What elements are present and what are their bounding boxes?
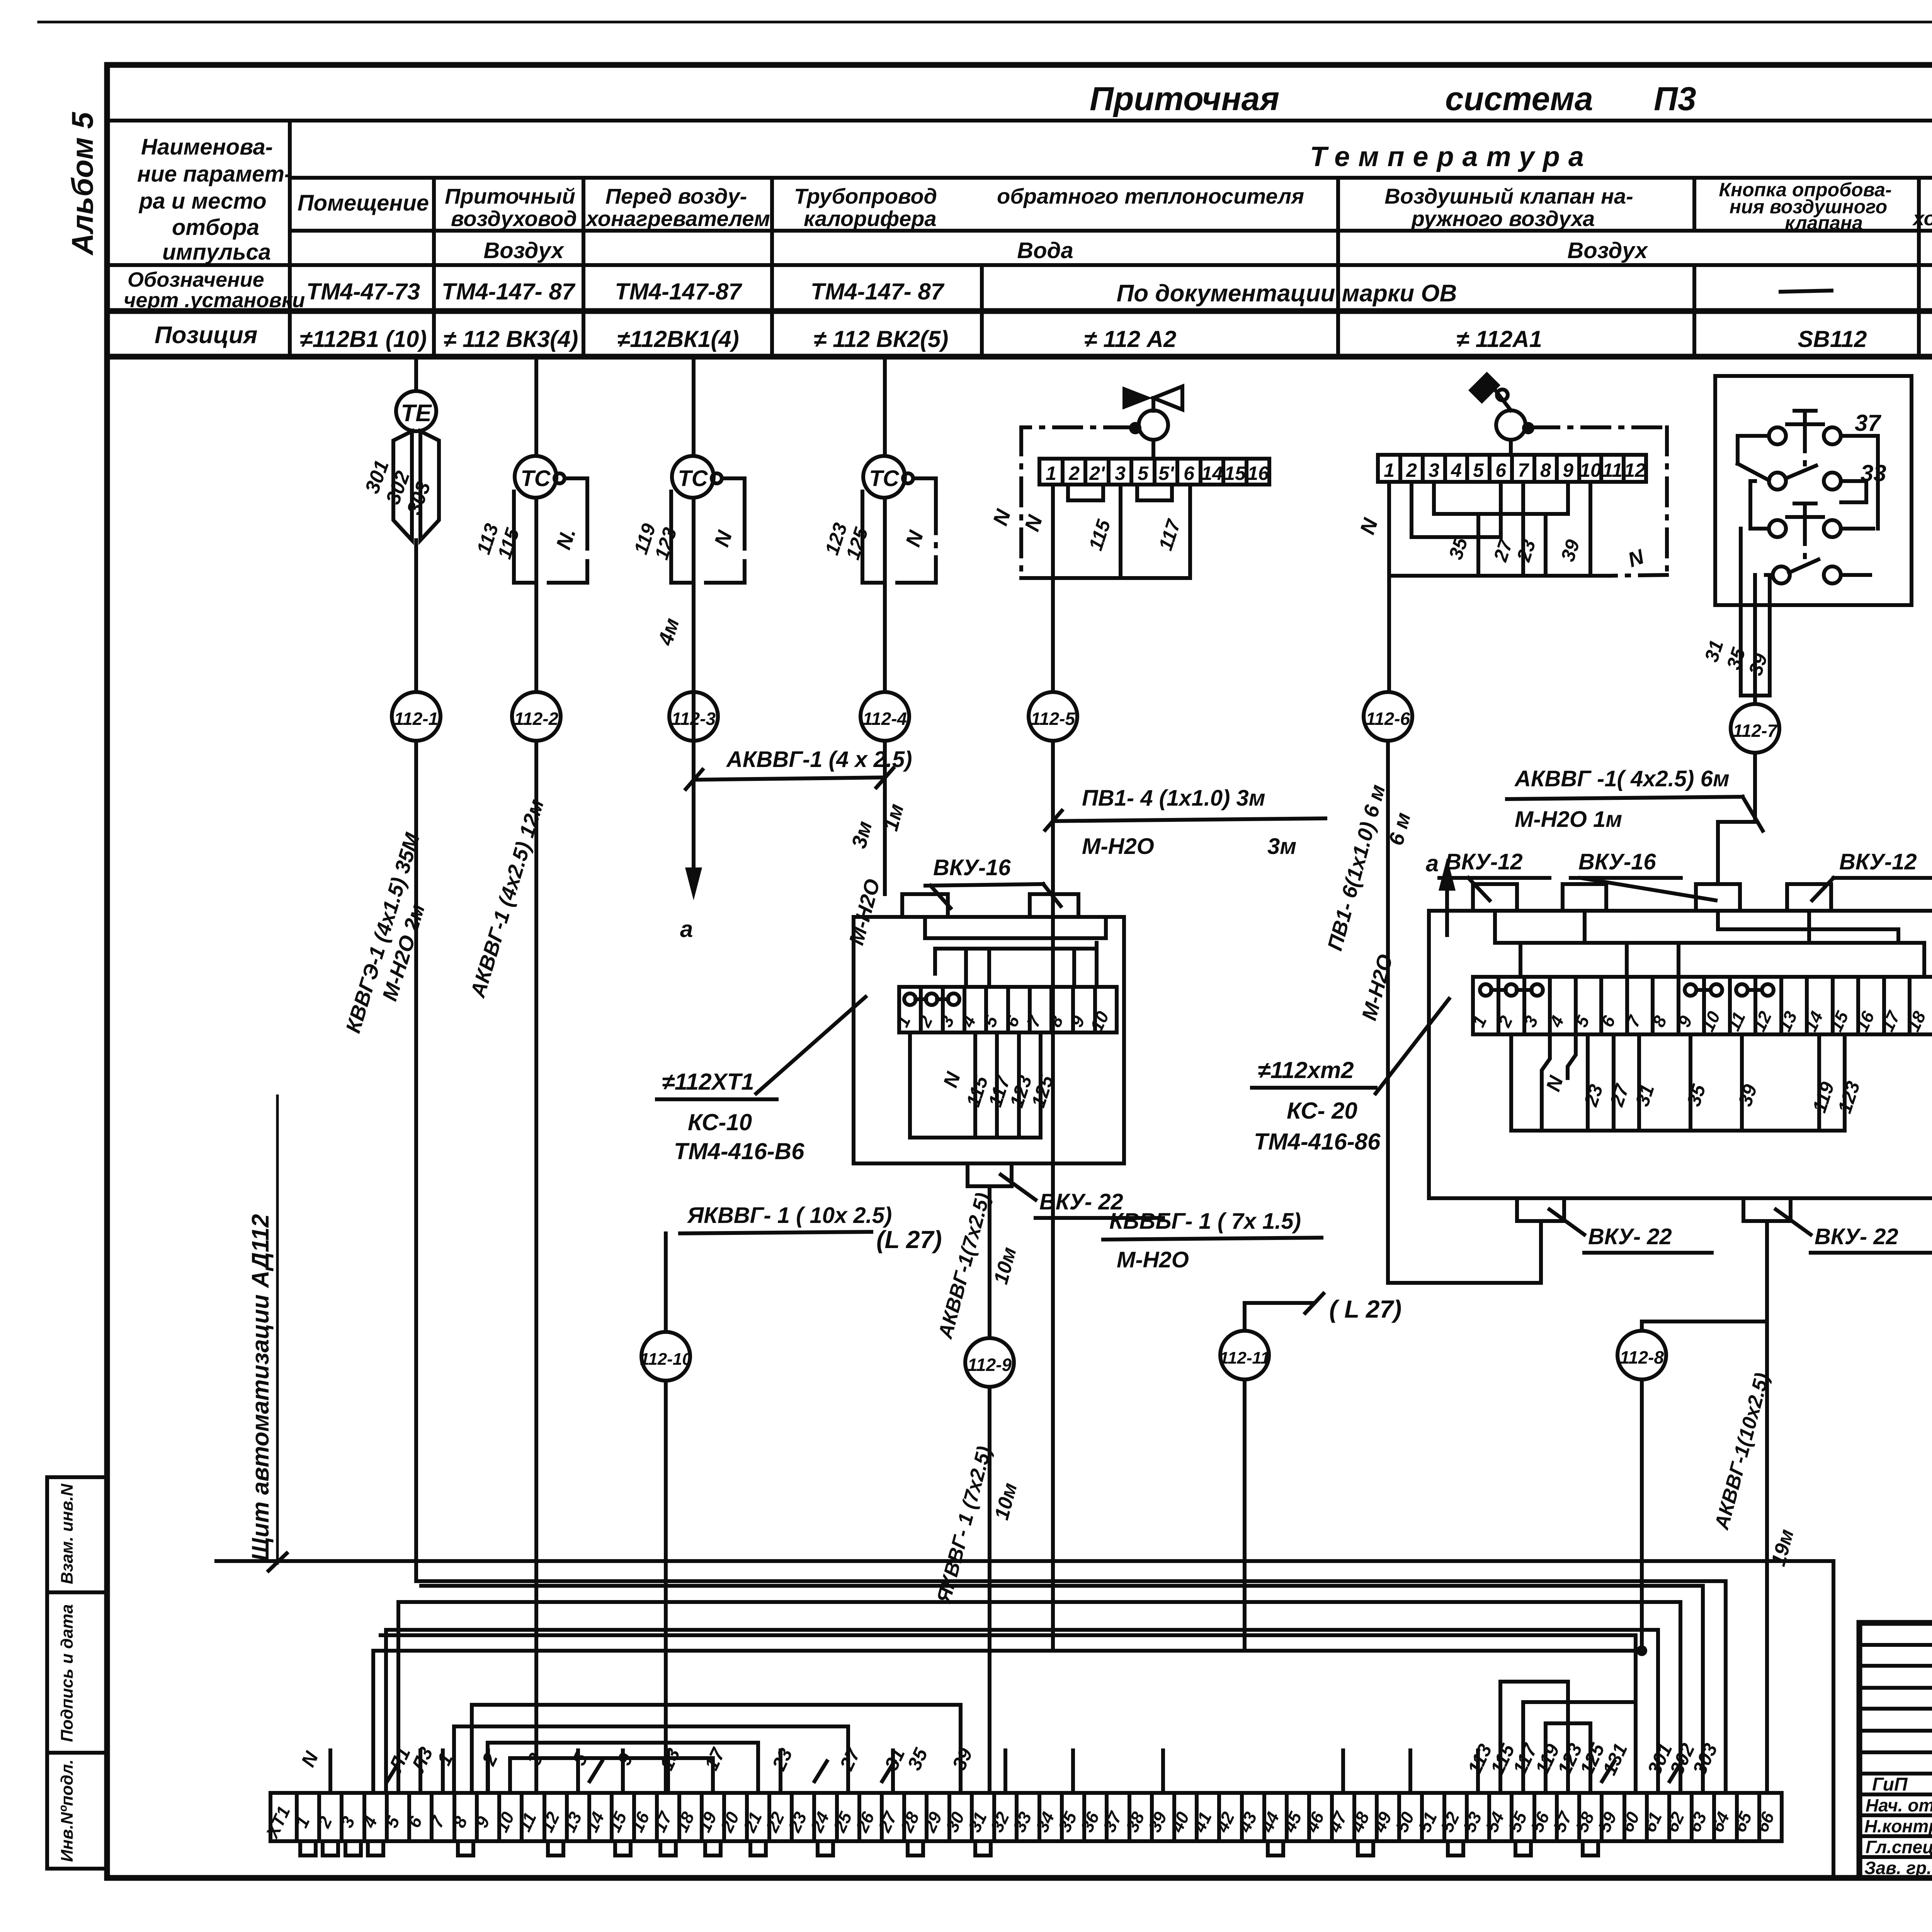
svg-text:ТМ4-47-73: ТМ4-47-73: [306, 279, 420, 304]
svg-text:≠112ХТ1: ≠112ХТ1: [662, 1069, 754, 1095]
svg-text:112-4: 112-4: [863, 709, 907, 729]
button internal wiring: [1738, 436, 1878, 605]
mid bracket B: [454, 1726, 848, 1793]
svg-text:КС- 20: КС- 20: [1287, 1098, 1357, 1124]
svg-text:По документации марки ОВ: По документации марки ОВ: [1117, 280, 1457, 307]
svg-text:( L 27): ( L 27): [1329, 1295, 1401, 1323]
wire col4 TC3 to 112-4: [883, 498, 887, 692]
box XT2 top tab 2: [1563, 884, 1606, 911]
valve symbol V1: [1122, 386, 1182, 411]
svg-text:Н.контр.: Н.контр.: [1864, 1816, 1932, 1836]
panel area boundary line: [216, 1561, 1833, 1877]
svg-text:ра и место: ра и место: [138, 189, 267, 214]
bus level 4: [384, 1630, 388, 1793]
svg-text:ВКУ-12: ВКУ-12: [1445, 849, 1523, 874]
svg-text:3м: 3м: [1267, 834, 1296, 859]
svg-text:Подпись и дата: Подпись и дата: [58, 1604, 77, 1742]
terminal header row V2: [1378, 455, 1646, 482]
wire col5 down: [1051, 741, 1055, 1238]
svg-text:12: 12: [1624, 459, 1646, 481]
wire 112-11 down to strip: [1243, 1379, 1247, 1650]
svg-text:Воздух: Воздух: [483, 238, 565, 263]
label 112ХТ1 КС-10: [657, 997, 866, 1164]
right bracket E: [1500, 1682, 1568, 1793]
junction circle 112-5: [1029, 692, 1077, 741]
TE pennant cable head: [361, 431, 439, 540]
svg-text:(L 27): (L 27): [876, 1226, 942, 1253]
svg-text:а: а: [680, 916, 693, 942]
svg-text:черт .установки: черт .установки: [124, 289, 305, 312]
box XT1 terminal row 1-10: [892, 987, 1117, 1034]
wire col1 TE to 112-1: [414, 540, 418, 692]
V1 terminal staple 5-5': [1137, 485, 1172, 500]
label cable ПВ1-4: [1045, 786, 1325, 859]
svg-text:8: 8: [1540, 459, 1551, 481]
svg-text:Взам. инв.N: Взам. инв.N: [58, 1483, 77, 1584]
svg-text:Помещение: Помещение: [298, 190, 429, 216]
short strip drops: [330, 1750, 1478, 1793]
svg-text:≠112ВК1(4): ≠112ВК1(4): [617, 326, 739, 352]
svg-text:Перед возду-: Перед возду-: [605, 184, 747, 208]
V2 jumper 2 to 6: [1412, 482, 1501, 537]
svg-text:Приточный: Приточный: [445, 184, 575, 208]
label cable 112-7: [1507, 766, 1763, 832]
svg-text:112-6: 112-6: [1366, 709, 1410, 729]
svg-text:Инв.Nºподл.: Инв.Nºподл.: [58, 1759, 77, 1862]
svg-text:КС-10: КС-10: [688, 1109, 752, 1135]
cable span dimension АКВВГ-1(4х2.5): [686, 747, 912, 789]
wire col1 down to fan: [414, 741, 418, 1581]
svg-text:ВКУ- 22: ВКУ- 22: [1815, 1224, 1898, 1249]
box XT2 top tab 3: [1696, 884, 1740, 911]
box XT1 screw jumper 1-2-3: [904, 993, 959, 1005]
svg-text:≠ 112 ВК3(4): ≠ 112 ВК3(4): [444, 326, 578, 352]
svg-text:Альбом 5: Альбом 5: [65, 112, 99, 256]
svg-text:112-5: 112-5: [1031, 709, 1076, 729]
svg-text:Гл.спец: Гл.спец: [1866, 1837, 1932, 1857]
label 112ХТ2 КС-20: [1252, 999, 1449, 1155]
label ВКУ-22 right with leader: [1776, 1209, 1932, 1253]
valve V2 wire to terminals: [1509, 440, 1513, 455]
box XT2 screw jumper 11-12: [1736, 984, 1774, 996]
wire 112-10 down to strip: [664, 1381, 668, 1793]
junction circle 112-3: [669, 692, 718, 741]
valve V1 wire to terminals: [1151, 440, 1155, 459]
box XT1 inner wiring: [925, 917, 1106, 987]
TC2 leads frame: [630, 478, 745, 583]
svg-text:ВКУ- 22: ВКУ- 22: [1588, 1224, 1672, 1249]
svg-text:обратного теплоносителя: обратного теплоносителя: [997, 184, 1304, 208]
svg-text:≠112хт2: ≠112хт2: [1258, 1057, 1354, 1083]
svg-text:ТМ4-147- 87: ТМ4-147- 87: [442, 279, 576, 304]
svg-text:2: 2: [1406, 459, 1417, 481]
wire col3 TC2 down: [692, 498, 696, 780]
svg-text:отбора: отбора: [172, 215, 259, 240]
wire col2 down to strip: [534, 741, 538, 1793]
junction box XT2 outline: [1429, 911, 1932, 1198]
valve V1 N dash-dot lead: [988, 422, 1141, 578]
svg-text:ВКУ-16: ВКУ-16: [933, 855, 1011, 880]
box XT2 top tab 1: [1473, 884, 1517, 911]
wire col6 to 112-6: [1387, 576, 1391, 692]
svg-text:хонагревателем: хонагревателем: [1912, 207, 1932, 230]
svg-text:Вода: Вода: [1017, 238, 1073, 263]
svg-text:Приточная: Приточная: [1090, 80, 1279, 117]
svg-text:АКВВГ -1( 4х2.5) 6м: АКВВГ -1( 4х2.5) 6м: [1514, 766, 1730, 791]
label ВКУ-16 second: [1571, 849, 1716, 900]
valve actuator circle V2: [1496, 410, 1526, 440]
box XT2 screw jumper 9-10: [1685, 984, 1722, 996]
svg-text:Обозначение: Обозначение: [128, 268, 264, 291]
svg-text:Позиция: Позиция: [155, 322, 257, 349]
V1 terminal staple 2-2': [1068, 485, 1103, 500]
svg-text:ВКУ-12: ВКУ-12: [1839, 849, 1917, 874]
wire 112-10 upper: [664, 1233, 668, 1332]
svg-text:ТС: ТС: [520, 466, 551, 491]
svg-text:система: система: [1445, 80, 1593, 117]
svg-text:SВ112: SВ112: [1798, 326, 1867, 352]
svg-text:хонагревателем: хонагревателем: [585, 206, 770, 231]
button contact pair lower break: [1766, 560, 1870, 583]
strip connector staples: [300, 1841, 1598, 1855]
title block stamp: [1859, 1623, 1932, 1878]
svg-text:5: 5: [1138, 463, 1149, 484]
svg-text:Температура: Температура: [1310, 141, 1592, 172]
svg-text:10: 10: [1580, 459, 1601, 481]
svg-text:37: 37: [1855, 410, 1881, 436]
svg-text:ТЕ: ТЕ: [401, 400, 432, 427]
wire col6 112-6 down: [1386, 741, 1390, 1283]
svg-text:5: 5: [1473, 459, 1484, 481]
button SB112 enclosure: [1715, 376, 1912, 605]
label ВКУ-22 with leader: [1001, 1175, 1163, 1218]
mid bracket A: [472, 1705, 961, 1793]
valve V2 N dash-dot lead: [1522, 422, 1667, 576]
svg-text:15: 15: [1224, 463, 1246, 484]
svg-text:ружного воздуха: ружного воздуха: [1411, 206, 1595, 231]
sensor TC1: [515, 456, 565, 498]
svg-text:КВВБГ- 1 ( 7х 1.5): КВВБГ- 1 ( 7х 1.5): [1109, 1209, 1301, 1234]
wire 112-9 cable from box XT1: [988, 1186, 992, 1338]
svg-text:ТМ4-147- 87: ТМ4-147- 87: [811, 279, 945, 304]
svg-text:калорифера: калорифера: [804, 206, 937, 231]
button contact pair lower: [1750, 503, 1873, 558]
svg-text:≠ 112А1: ≠ 112А1: [1456, 326, 1542, 352]
svg-text:112-9: 112-9: [968, 1355, 1012, 1375]
svg-text:4: 4: [1451, 459, 1462, 481]
wire col4 drop from table: [883, 357, 887, 456]
cable 19m drop to strip: [1710, 1321, 1798, 1793]
junction circle 112-6: [1364, 692, 1412, 741]
wire 112-7 down to box2: [1718, 753, 1755, 884]
svg-text:воздуховод: воздуховод: [451, 206, 577, 231]
svg-text:Трубопровод: Трубопровод: [794, 184, 937, 208]
svg-text:14: 14: [1201, 463, 1223, 484]
V2 lead wires to N bus: [1355, 482, 1608, 576]
right bracket G: [1546, 1723, 1590, 1793]
valve actuator circle V1: [1139, 410, 1168, 440]
svg-text:7: 7: [1518, 459, 1529, 481]
bus level 6 joins 112-8: [371, 1651, 375, 1793]
button contact pair upper: [1738, 411, 1878, 466]
junction circle 112-9: [965, 1338, 1014, 1387]
junction circle 112-2: [512, 692, 561, 741]
wire col5 down to fan: [1051, 1238, 1055, 1650]
svg-text:3: 3: [1115, 463, 1126, 484]
svg-text:ТМ4-416-86: ТМ4-416-86: [1254, 1129, 1381, 1155]
label КВВБГ-1 7х1.5: [1103, 1209, 1321, 1272]
svg-text:а: а: [1426, 850, 1439, 876]
svg-text:Воздух: Воздух: [1567, 238, 1648, 263]
wire col5 to 112-5: [1051, 578, 1055, 692]
button exit wires 31 35 39: [1701, 575, 1772, 704]
mid bracket D: [510, 1758, 713, 1793]
left margin stamp boxes: [47, 1477, 107, 1869]
sheet top edge: [39, 21, 1932, 24]
wire box XT2 right tab to 112-8: [1642, 1221, 1767, 1331]
TC1 leads frame: [473, 478, 587, 583]
terminal strip XT1 body: [262, 1793, 1782, 1842]
label ВКУ-22 left with leader: [1549, 1209, 1712, 1253]
svg-text:11: 11: [1602, 459, 1622, 481]
svg-text:Зав. гр.: Зав. гр.: [1864, 1858, 1932, 1878]
junction circle 112-1: [392, 692, 440, 741]
box XT2 lead wires below: [1511, 1034, 1864, 1131]
box XT1 top tab A: [902, 894, 948, 917]
V1 lead wires frame: [1020, 485, 1190, 578]
wire box XT2 left tab down to col6: [1388, 1221, 1541, 1283]
svg-text:ТС: ТС: [678, 466, 708, 491]
header table grid: [107, 121, 1932, 357]
svg-text:клапана: клапана: [1785, 212, 1863, 234]
V2 jumper 3 to 9: [1434, 482, 1568, 514]
svg-text:≠112В1 (10): ≠112В1 (10): [300, 326, 427, 352]
box XT2 top tab 4: [1787, 884, 1831, 911]
wire col2 TC1 to 112-2: [534, 498, 538, 692]
box XT1 bottom tab: [968, 1163, 1012, 1186]
damper symbol V2: [1468, 372, 1511, 410]
svg-text:ТМ4-147-87: ТМ4-147-87: [615, 279, 742, 304]
wire 112-9 down to strip: [988, 1387, 992, 1793]
svg-text:1: 1: [1384, 459, 1395, 481]
wire col2 drop from table: [534, 357, 538, 456]
junction circle 112-8: [1617, 1331, 1666, 1379]
junction circle 112-7: [1731, 704, 1779, 753]
svg-text:112-7: 112-7: [1733, 721, 1778, 741]
bus 301 302 303 to strip: [398, 1581, 1726, 1793]
svg-text:ТМ4-416-В6: ТМ4-416-В6: [674, 1138, 804, 1164]
box XT2 terminal row 1-20: [1468, 977, 1932, 1035]
row label Наименование параметра: [137, 134, 292, 265]
svg-text:ТС: ТС: [869, 466, 899, 491]
svg-text:ГиП: ГиП: [1872, 1774, 1908, 1795]
svg-text:112-3: 112-3: [672, 709, 716, 729]
mid bracket C: [488, 1743, 758, 1793]
label ВКУ-16 with leaders: [925, 855, 1061, 908]
svg-text:112-10: 112-10: [640, 1350, 692, 1369]
junction circle 112-4: [861, 692, 909, 741]
svg-text:9: 9: [1563, 459, 1573, 481]
svg-text:Наименова-: Наименова-: [141, 134, 273, 160]
TC3 leads frame: [821, 478, 936, 583]
sensor TE: [396, 391, 436, 431]
wire col1 drop from table: [414, 357, 418, 391]
box XT1 lead wires below: [910, 1032, 1058, 1138]
svg-text:ВКУ-16: ВКУ-16: [1578, 849, 1656, 874]
svg-text:112-11: 112-11: [1219, 1349, 1270, 1367]
svg-text:112-1: 112-1: [394, 709, 438, 729]
box XT2 bottom tab left: [1517, 1198, 1564, 1221]
svg-text:П3: П3: [1654, 80, 1696, 117]
label ВКУ-12 first: [1439, 849, 1549, 900]
svg-text:Нач. отд.: Нач. отд.: [1866, 1795, 1932, 1815]
svg-text:М-Н2О 1м: М-Н2О 1м: [1515, 807, 1622, 832]
drop slashes: [387, 1761, 1682, 1781]
svg-text:≠ 112 А2: ≠ 112 А2: [1084, 326, 1177, 352]
svg-text:ние парамет-: ние парамет-: [137, 162, 292, 187]
svg-text:М-Н2О: М-Н2О: [1117, 1247, 1189, 1272]
label ВКУ-12 third: [1812, 849, 1932, 900]
panel boundary label Щит автоматизации АД112: [247, 1096, 287, 1571]
right bracket F: [1523, 1702, 1636, 1793]
svg-text:1: 1: [1046, 463, 1056, 484]
wire col4 112-4 to box1: [883, 741, 887, 894]
sensor TC3: [863, 456, 913, 498]
svg-text:≠ 112 ВК2(5): ≠ 112 ВК2(5): [814, 326, 949, 352]
stamp signature rows: [1864, 1774, 1932, 1878]
svg-text:М-Н2О: М-Н2О: [1082, 834, 1154, 859]
terminal header row V1: [1039, 459, 1269, 485]
wire 112-8 down: [1640, 1379, 1644, 1651]
svg-text:2': 2': [1089, 463, 1105, 484]
box XT2 inner wiring: [1495, 911, 1924, 977]
box XT2 bottom tab right: [1743, 1198, 1791, 1221]
box XT2 screw jumper 1-2-3: [1480, 984, 1543, 996]
wire 112-11 upper with continuation L27: [1245, 1294, 1401, 1330]
svg-text:16: 16: [1247, 463, 1269, 484]
svg-text:112-2: 112-2: [514, 709, 559, 729]
svg-text:Воздушный клапан на-: Воздушный клапан на-: [1384, 184, 1633, 208]
junction circle 112-11: [1219, 1331, 1270, 1379]
junction box XT1 outline: [854, 917, 1124, 1163]
label cable ЯКВВГ-1 10х2.5 L27: [680, 1203, 942, 1253]
svg-text:6: 6: [1495, 459, 1507, 481]
svg-text:2: 2: [1068, 463, 1080, 484]
button contact pair upper break: [1738, 464, 1866, 490]
svg-text:импульса: импульса: [162, 240, 271, 265]
svg-text:5': 5': [1158, 463, 1175, 484]
svg-text:112-8: 112-8: [1620, 1347, 1664, 1367]
svg-text:3: 3: [1429, 459, 1439, 481]
svg-text:ЯКВВГ- 1 ( 10х 2.5): ЯКВВГ- 1 ( 10х 2.5): [687, 1203, 892, 1228]
sensor TC2: [672, 456, 722, 498]
svg-text:Щит автоматизации АД112: Щит автоматизации АД112: [247, 1214, 274, 1561]
junction circle 112-10: [640, 1332, 692, 1381]
strip wire number labels: [297, 1740, 1722, 1778]
box XT1 top tab B: [1030, 894, 1078, 917]
wire col3 continuation arrow a: [680, 780, 702, 942]
svg-text:ПВ1- 4 (1х1.0) 3м: ПВ1- 4 (1х1.0) 3м: [1082, 786, 1265, 811]
svg-text:6: 6: [1184, 463, 1195, 484]
bus level 5: [381, 1635, 1636, 1793]
continuation arrow a up: [1426, 850, 1456, 935]
wire col3 drop from table: [692, 357, 696, 456]
